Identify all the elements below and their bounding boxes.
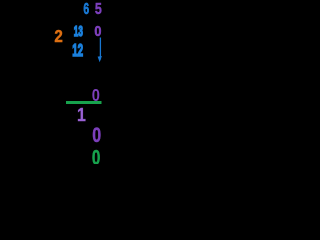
svg-text:5: 5 (95, 0, 102, 17)
product 12 (72, 41, 83, 61)
dividend 0 (94, 22, 101, 39)
bring-down arrow shaft (99, 38, 101, 60)
product 0 (92, 124, 101, 148)
bring-down arrow head (98, 56, 102, 62)
dividend 13 (74, 22, 83, 39)
quotient digit 6 (83, 0, 89, 18)
svg-text:12: 12 (72, 41, 83, 61)
final remainder 0 (92, 145, 100, 169)
svg-text:13: 13 (74, 22, 83, 39)
svg-text:2: 2 (54, 27, 62, 46)
svg-text:6: 6 (83, 0, 89, 18)
svg-text:0: 0 (94, 22, 101, 39)
svg-text:0: 0 (92, 145, 100, 164)
subtraction line (66, 101, 102, 104)
svg-text:1: 1 (77, 104, 86, 125)
remainder 1 (77, 104, 86, 125)
brought-down 0 (92, 86, 100, 106)
quotient digit 5 (95, 0, 102, 17)
divisor 2 (54, 27, 62, 46)
